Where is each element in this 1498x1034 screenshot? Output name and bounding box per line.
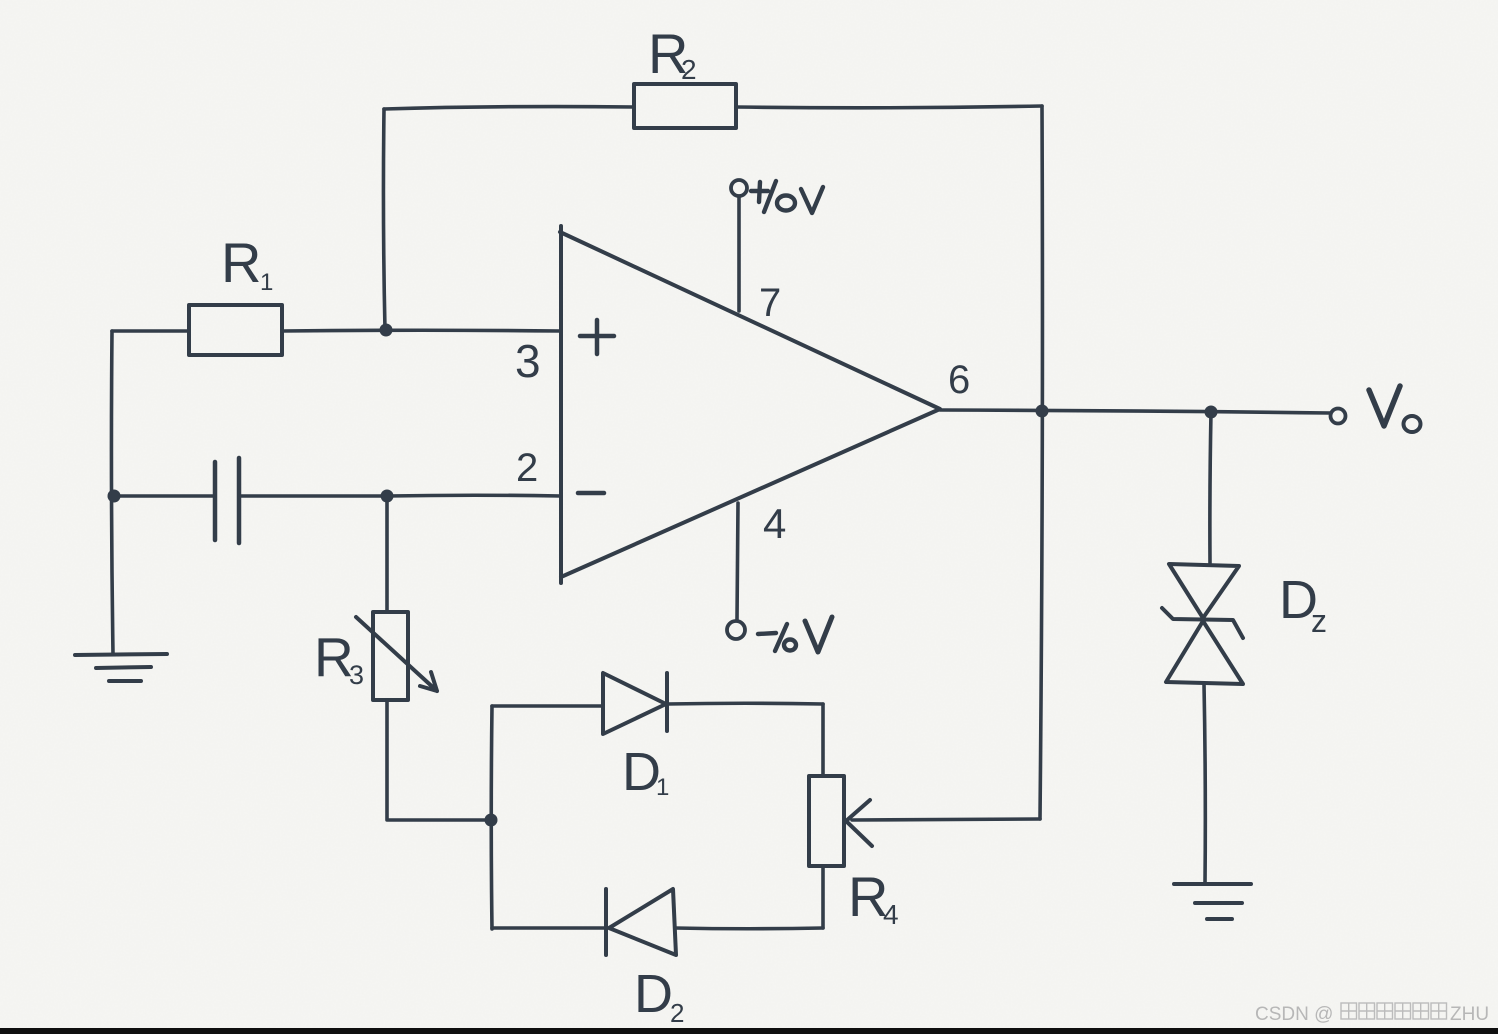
wire: R4 wiper horizontal (852, 819, 1040, 820)
svg-text:4: 4 (883, 899, 899, 930)
wire: pin 7 power up (737, 197, 741, 311)
potentiometer R4 body (809, 776, 844, 866)
wire: output from pin 6 (940, 410, 1330, 413)
svg-text:3: 3 (349, 660, 364, 690)
svg-text:6: 6 (948, 358, 970, 402)
wire: loop right vertical bottom (821, 866, 825, 928)
svg-text:7: 7 (759, 281, 781, 325)
wire: zener branch vertical from output (1210, 412, 1211, 563)
wire: - input node to op-amp (387, 493, 561, 497)
svg-text:CSDN @: CSDN @ (1255, 1004, 1333, 1025)
wire: feedback left vertical down to + input node (383, 109, 385, 330)
svg-text:R: R (221, 231, 261, 294)
wire: loop right vertical top (821, 704, 825, 776)
wire: left node to capacitor (113, 494, 213, 498)
potentiometer R3 arrow (356, 617, 437, 691)
resistor R2 (634, 84, 736, 128)
op-amp U1 (560, 226, 940, 583)
wire: R3 bottom down and right to loop node (387, 700, 491, 820)
potentiometer R4 wiper arrow (846, 800, 872, 846)
wire: D2 anode to loop right vertical (675, 926, 823, 930)
terminal circle +10V (731, 180, 747, 196)
capacitor C1 right plate (237, 458, 242, 543)
label D1 (622, 742, 669, 802)
terminal circle -10V (727, 621, 745, 639)
diode D1 cathode bar (665, 673, 669, 731)
wire: feedback right vertical from top to output node and down to R4 wiper (1040, 106, 1042, 819)
wire: pin 4 power down (737, 503, 738, 620)
wire: loop node to D2 cathode (492, 926, 606, 930)
junction: R3 / diode loop node (485, 814, 498, 827)
bottom black bar (0, 1028, 1498, 1034)
svg-text:R: R (314, 626, 354, 688)
watermark CSDN (1255, 1003, 1489, 1025)
svg-text:4: 4 (763, 500, 786, 547)
svg-text:D: D (634, 964, 673, 1024)
label R2 (648, 22, 697, 85)
wire: D1 cathode to loop right vertical (667, 701, 823, 705)
label R4 (848, 865, 899, 930)
label D2 (bottom diode) (634, 964, 684, 1028)
svg-text:1: 1 (656, 774, 669, 801)
wire: feedback top horizontal right of R2 (736, 106, 1042, 108)
junction: output / feedback node (1036, 405, 1049, 418)
ground (right) (1174, 884, 1251, 919)
wire: - input node down to R3 (385, 496, 389, 612)
wire: left vertical from input node down to ground (111, 331, 113, 654)
junction: - input node (381, 490, 394, 503)
wire: loop node to D1 anode (492, 704, 603, 708)
zener Dz top triangle (1169, 564, 1239, 618)
potentiometer R3 body (373, 612, 408, 700)
wire: R1 to op-amp + input (282, 328, 561, 332)
wire: zener to ground (1204, 684, 1205, 884)
junction: + input node (380, 324, 393, 337)
zener Dz bottom triangle (1166, 621, 1243, 684)
label R3 (314, 626, 364, 690)
terminal circle Vo (1331, 409, 1346, 424)
capacitor C1 left plate (213, 462, 218, 540)
label -10V (758, 617, 832, 652)
op-amp - input symbol (578, 491, 604, 496)
wire: loop left vertical (489, 706, 493, 929)
svg-text:2: 2 (681, 54, 697, 85)
wire: input left horizontal to R1 (112, 329, 189, 333)
svg-text:ZHU: ZHU (1450, 1004, 1489, 1025)
junction: left input / capacitor node (108, 490, 121, 503)
wire: feedback top horizontal left of R2 (384, 107, 634, 109)
ground (left) (75, 654, 167, 681)
diode D2 (609, 889, 676, 955)
label +10V (751, 181, 823, 213)
label Vo (1369, 386, 1421, 432)
diode D1 (603, 673, 666, 734)
svg-text:2: 2 (516, 446, 538, 490)
junction: output / zener node (1205, 406, 1218, 419)
wire: capacitor to - input node (241, 494, 387, 498)
svg-text:1: 1 (260, 269, 273, 296)
label R1 (221, 231, 273, 296)
svg-text:3: 3 (515, 335, 541, 387)
label Dz (zener) (1279, 570, 1327, 639)
diode D2 cathode bar (604, 889, 608, 955)
svg-text:z: z (1311, 603, 1327, 639)
resistor R1 (189, 305, 282, 355)
op-amp + input symbol (580, 320, 614, 354)
zener Dz middle bar with ticks (1162, 608, 1243, 638)
svg-text:2: 2 (670, 998, 684, 1028)
